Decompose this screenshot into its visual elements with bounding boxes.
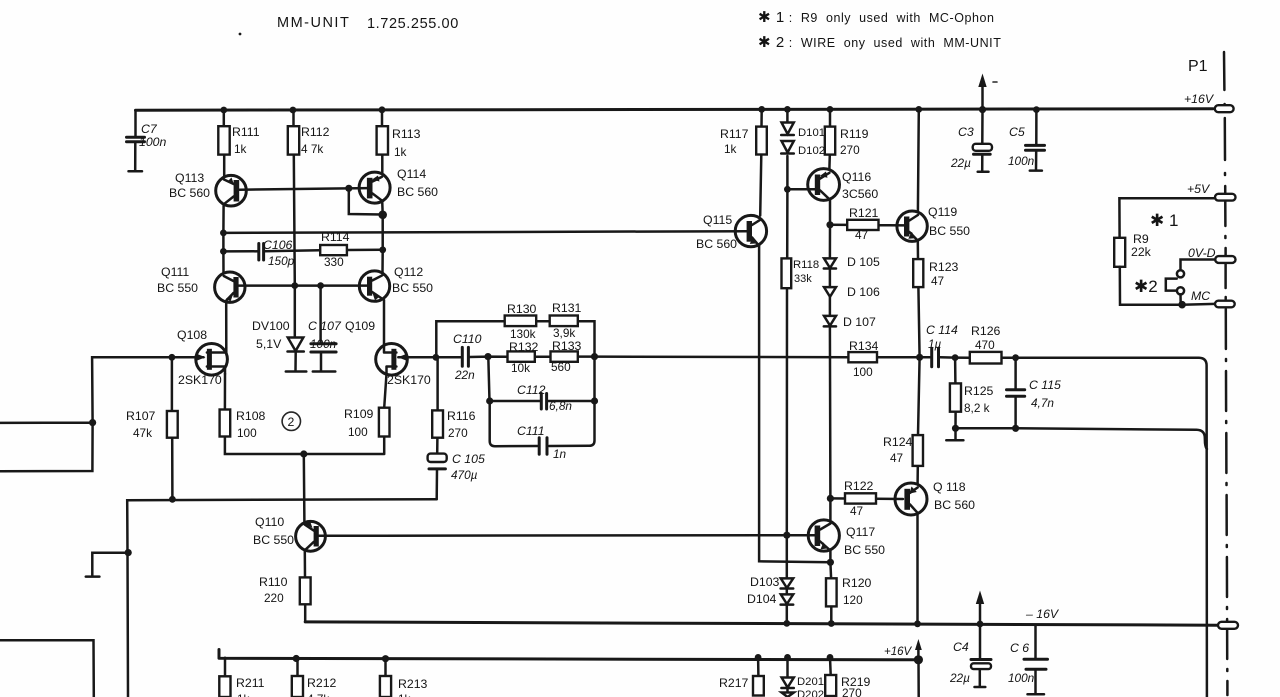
resistor R217 xyxy=(719,657,764,695)
svg-text:1µ: 1µ xyxy=(928,337,942,351)
svg-text:R110: R110 xyxy=(259,575,288,589)
wire C106/R114 row y=251 xyxy=(223,250,382,252)
FET Q109 xyxy=(345,319,431,387)
diode D103 xyxy=(750,575,793,589)
svg-text:R130: R130 xyxy=(507,302,537,316)
svg-text:47: 47 xyxy=(855,228,868,242)
resistor R130 xyxy=(505,302,537,341)
svg-text:BC 550: BC 550 xyxy=(844,543,885,557)
svg-text:100n: 100n xyxy=(139,135,167,149)
node Q117 base/emitter junctions xyxy=(783,532,834,566)
wire C115 column xyxy=(1014,358,1017,429)
wire -16V bottom rail xyxy=(305,622,1218,625)
wire R130/R131 top loop xyxy=(436,321,594,357)
node -16V rail junctions xyxy=(783,620,983,627)
svg-text:4 7k: 4 7k xyxy=(307,692,329,697)
svg-text:R116: R116 xyxy=(447,409,476,423)
wire R125 tap xyxy=(954,358,957,429)
svg-text:220: 220 xyxy=(264,591,284,605)
svg-text:C3: C3 xyxy=(958,125,974,139)
svg-text:✱ 2 : WIRE ony used with: ✱ 2 : WIRE ony used with MM-UNIT xyxy=(758,34,1001,51)
svg-text:C110: C110 xyxy=(453,332,482,346)
switch contact lower xyxy=(1177,287,1184,294)
wire D105/D106/D107 column xyxy=(829,225,832,499)
svg-text:1k: 1k xyxy=(398,692,411,697)
svg-text:BC 550: BC 550 xyxy=(157,281,198,295)
svg-text:Q112: Q112 xyxy=(394,265,423,279)
wire R113/Q114/Q112/Q109 column xyxy=(382,110,384,346)
svg-text:Q111: Q111 xyxy=(161,265,189,279)
svg-text:560: 560 xyxy=(551,360,571,374)
node rail junctions xyxy=(220,106,1039,113)
resistor R219 xyxy=(825,657,870,697)
svg-text:R132: R132 xyxy=(509,340,539,354)
resistor R123 xyxy=(913,259,958,288)
svg-text:R213: R213 xyxy=(398,677,428,691)
wire 0V-D to switch xyxy=(1181,260,1216,271)
svg-text:Q119: Q119 xyxy=(928,205,957,219)
svg-text:R212: R212 xyxy=(307,676,337,690)
svg-text:1k: 1k xyxy=(724,142,737,156)
resistor R107 xyxy=(126,409,178,440)
diode D106 xyxy=(824,285,880,299)
svg-text:Q115: Q115 xyxy=(703,213,732,227)
ground bar left xyxy=(86,575,100,578)
svg-text:R111: R111 xyxy=(232,125,260,139)
wire D101/D102/R118 column xyxy=(786,109,789,535)
svg-text:C 105: C 105 xyxy=(452,452,485,466)
svg-text:Q114: Q114 xyxy=(397,167,426,181)
wire strap bracket *2 xyxy=(1166,279,1177,291)
diode D201 xyxy=(781,657,824,697)
capacitor C111 xyxy=(517,424,567,461)
resistor R213 xyxy=(380,659,428,697)
svg-text:D104: D104 xyxy=(747,592,777,606)
svg-text:100: 100 xyxy=(853,365,873,379)
wire input gate line Q108 xyxy=(0,357,204,471)
svg-text:D 107: D 107 xyxy=(843,315,876,329)
capacitor C4 electrolytic xyxy=(949,624,991,687)
svg-text:22µ: 22µ xyxy=(949,671,970,685)
capacitor C114 xyxy=(926,323,958,367)
node R122 junction xyxy=(827,495,834,502)
svg-text:R123: R123 xyxy=(929,260,959,274)
svg-text:R9: R9 xyxy=(1133,232,1149,246)
svg-text:1k: 1k xyxy=(234,142,247,156)
node input junction xyxy=(89,419,96,426)
svg-text:100n: 100n xyxy=(310,337,337,351)
svg-text:D102: D102 xyxy=(798,145,825,157)
capacitor C110 xyxy=(453,332,482,382)
svg-text:Q116: Q116 xyxy=(842,170,871,184)
capacitor C107 xyxy=(308,286,342,372)
svg-text:R109: R109 xyxy=(344,407,374,421)
svg-text:BC 560: BC 560 xyxy=(397,185,438,199)
node Q116 base junction xyxy=(784,186,791,193)
wire Q115 emitter down and across xyxy=(759,247,830,563)
zener DV100 xyxy=(252,286,306,372)
svg-text:C7: C7 xyxy=(141,122,158,136)
svg-text:8,2 k: 8,2 k xyxy=(964,401,990,415)
wire R107 column xyxy=(171,357,174,499)
transistor Q117 xyxy=(808,520,885,557)
svg-text:10k: 10k xyxy=(511,361,530,375)
svg-text:47: 47 xyxy=(931,274,944,288)
node R107 bottom junction xyxy=(169,496,176,503)
svg-text:2SK170: 2SK170 xyxy=(178,373,222,387)
resistor R134 xyxy=(848,339,878,379)
svg-text:R114: R114 xyxy=(321,230,350,244)
svg-text:C 6: C 6 xyxy=(1010,641,1029,655)
svg-text:+16V: +16V xyxy=(1184,92,1215,106)
svg-text:✱ 1 : R9 only used with: ✱ 1 : R9 only used with MC-Ophon xyxy=(758,9,995,26)
resistor R116 xyxy=(432,409,475,440)
wire Q117 collector/emitter column xyxy=(829,498,832,623)
svg-text:22k: 22k xyxy=(1131,245,1152,259)
svg-text:100: 100 xyxy=(237,426,257,440)
svg-text:470: 470 xyxy=(975,338,995,352)
svg-text:1k: 1k xyxy=(394,145,407,159)
svg-text:2SK170: 2SK170 xyxy=(387,373,431,387)
svg-text:D 106: D 106 xyxy=(847,285,880,299)
wire R9 to MC xyxy=(1120,267,1215,305)
svg-text:R119: R119 xyxy=(840,127,869,141)
node FET source node xyxy=(300,450,307,457)
wire Q110 emitter / R140 column xyxy=(304,551,307,622)
resistor R9 xyxy=(1114,232,1151,267)
transistor Q112 xyxy=(359,265,433,301)
wire channel-2 input box corner xyxy=(0,640,94,697)
svg-text:R113: R113 xyxy=(392,127,421,141)
svg-text:5,1V: 5,1V xyxy=(256,337,282,351)
svg-text:R125: R125 xyxy=(964,384,994,398)
arrow -16V supply entry xyxy=(976,591,984,625)
capacitor C112 xyxy=(517,383,572,413)
resistor R121 xyxy=(847,206,878,242)
svg-text:330: 330 xyxy=(324,255,344,269)
wire signal line y=357 xyxy=(398,357,1207,697)
diode D104 xyxy=(747,592,793,606)
resistor R120 xyxy=(826,576,872,607)
svg-text:C5: C5 xyxy=(1009,125,1025,139)
capacitor C3 electrolytic xyxy=(950,110,992,172)
wire ground return line y=499.5 xyxy=(92,499,436,697)
wire Q113/Q114 emitter bus y=233 to Q115 base xyxy=(223,231,746,233)
wire D103/D104 column xyxy=(786,535,789,623)
svg-text:R211: R211 xyxy=(236,676,265,690)
pin +16V xyxy=(1184,92,1234,112)
svg-text:C 107: C 107 xyxy=(308,319,342,333)
svg-text:22n: 22n xyxy=(454,368,475,382)
wire Q119 column xyxy=(918,109,920,357)
svg-text:R121: R121 xyxy=(849,206,879,220)
node channel-2 rail junctions xyxy=(293,654,923,664)
svg-text:+5V: +5V xyxy=(1187,182,1211,196)
svg-text:D201: D201 xyxy=(797,676,824,688)
svg-text:100n: 100n xyxy=(1008,671,1035,685)
svg-text:Q109: Q109 xyxy=(345,319,375,333)
wire +16V top rail xyxy=(136,109,1214,110)
svg-text:+16V: +16V xyxy=(884,646,913,658)
svg-text:150p: 150p xyxy=(268,254,295,268)
svg-text:3C560: 3C560 xyxy=(842,187,878,201)
FET Q108 xyxy=(177,328,227,387)
transistor Q119 xyxy=(897,205,970,241)
svg-text:6,8n: 6,8n xyxy=(549,399,572,413)
resistor R109 xyxy=(344,407,390,439)
node emitter bus junctions xyxy=(220,185,387,255)
svg-text:270: 270 xyxy=(842,686,862,697)
diode D101 xyxy=(781,123,825,140)
diode D107 xyxy=(824,315,876,329)
resistor R108 xyxy=(220,409,266,440)
capacitor C115 xyxy=(1007,378,1062,410)
arrow channel-2 +16V entry xyxy=(884,639,922,660)
svg-text:BC 560: BC 560 xyxy=(934,498,975,512)
wire R112 column xyxy=(294,110,295,286)
svg-text:47k: 47k xyxy=(133,426,152,440)
node ground tap junction xyxy=(125,549,132,556)
transistor Q114 xyxy=(359,167,438,203)
svg-text:D202: D202 xyxy=(797,689,824,697)
svg-text:47: 47 xyxy=(890,451,903,465)
capacitor C106 xyxy=(259,238,295,268)
svg-text:BC 560: BC 560 xyxy=(696,237,737,251)
svg-text:4,7n: 4,7n xyxy=(1031,396,1054,410)
svg-text:22µ: 22µ xyxy=(950,156,971,170)
wire R119/Q116 column xyxy=(828,109,831,224)
wire R122 row xyxy=(830,497,903,500)
svg-text:470µ: 470µ xyxy=(451,468,478,482)
arrow +16V supply entry xyxy=(978,74,997,110)
transistor Q116 xyxy=(787,169,878,201)
svg-text:47: 47 xyxy=(850,504,863,518)
svg-text:0V-D: 0V-D xyxy=(1188,246,1216,260)
svg-text:BC 550: BC 550 xyxy=(253,533,294,547)
node lower row junctions xyxy=(952,425,1019,432)
wire C112 loop xyxy=(488,357,594,401)
resistor R126 xyxy=(970,324,1002,364)
svg-text:C112: C112 xyxy=(517,383,546,397)
wire Q113-Q114 base link xyxy=(240,188,368,190)
diode D102 xyxy=(781,141,825,157)
svg-text:33k: 33k xyxy=(794,273,812,285)
wire channel-2 column continuing down xyxy=(917,660,920,697)
resistor R111 xyxy=(218,125,259,156)
wire R111/Q113/Q111/Q108/R108 column xyxy=(223,110,386,454)
resistor R122 xyxy=(844,479,876,518)
svg-text:Q108: Q108 xyxy=(177,328,207,342)
resistor R110 xyxy=(259,575,311,605)
resistor R119 xyxy=(825,127,869,157)
svg-text:Q113: Q113 xyxy=(175,171,204,185)
svg-text:Q110: Q110 xyxy=(255,515,284,529)
wire lower contact to MC xyxy=(1179,294,1182,304)
capacitor C105 electrolytic xyxy=(428,452,485,482)
pin 0V-D xyxy=(1188,246,1236,263)
svg-text:R122: R122 xyxy=(844,479,874,493)
resistor R125 xyxy=(950,383,994,415)
svg-text:100n: 100n xyxy=(1008,154,1035,168)
resistor R132 xyxy=(508,340,539,375)
pin -16V xyxy=(1025,607,1238,629)
svg-text:DV100: DV100 xyxy=(252,319,290,333)
svg-text:R131: R131 xyxy=(552,301,582,315)
wire +5V to R9 xyxy=(1119,198,1215,238)
wire Q111-Q112 base link y=285.6 xyxy=(239,284,368,287)
svg-text:D103: D103 xyxy=(750,575,780,589)
diode D105 xyxy=(824,255,880,269)
svg-text:C106: C106 xyxy=(263,238,293,252)
svg-text:✱2: ✱2 xyxy=(1134,277,1158,296)
capacitor C6 xyxy=(1008,625,1048,694)
node Q108 gate junction xyxy=(169,354,176,361)
svg-text:R124: R124 xyxy=(883,435,913,449)
svg-text:270: 270 xyxy=(448,426,468,440)
resistor R133 xyxy=(551,339,582,374)
capacitor C5 xyxy=(1008,110,1045,171)
transistor Q113 xyxy=(169,171,246,206)
svg-text:D101: D101 xyxy=(798,127,825,139)
svg-text:R118: R118 xyxy=(793,259,819,271)
node label circled 2 xyxy=(282,412,300,430)
svg-text:R133: R133 xyxy=(552,339,582,353)
switch contact upper xyxy=(1177,270,1184,277)
svg-text:BC 560: BC 560 xyxy=(169,186,210,200)
wire Q114 base-emitter strap xyxy=(349,188,383,214)
svg-text:BC 550: BC 550 xyxy=(392,281,433,295)
svg-text:1.725.255.00: 1.725.255.00 xyxy=(367,16,459,32)
svg-text:R107: R107 xyxy=(126,409,156,423)
resistor R211 xyxy=(219,658,264,697)
svg-text:R117: R117 xyxy=(720,127,749,141)
resistor R212 xyxy=(292,658,337,697)
svg-text:Q 118: Q 118 xyxy=(933,480,966,494)
svg-text:R108: R108 xyxy=(236,409,266,423)
transistor Q111 xyxy=(157,265,245,302)
svg-text:MC: MC xyxy=(1191,289,1210,303)
svg-text:Q117: Q117 xyxy=(846,525,875,539)
svg-text:1n: 1n xyxy=(553,447,567,461)
resistor R117 xyxy=(720,127,767,156)
svg-text:D 105: D 105 xyxy=(847,255,880,269)
svg-text:130k: 130k xyxy=(510,327,536,341)
node MC junction xyxy=(1178,301,1186,309)
resistor R118 xyxy=(782,258,820,288)
svg-text:R112: R112 xyxy=(301,125,330,139)
svg-text:R134: R134 xyxy=(849,339,879,353)
svg-text:R217: R217 xyxy=(719,676,749,690)
svg-text:R120: R120 xyxy=(842,576,872,590)
svg-text:✱ 1: ✱ 1 xyxy=(1150,211,1178,230)
transistor Q118 xyxy=(895,480,975,515)
wire Q110 base line to Q117 xyxy=(319,534,815,537)
svg-text:2: 2 xyxy=(288,415,295,429)
transistor Q115 xyxy=(696,213,767,251)
svg-text:100: 100 xyxy=(348,425,368,439)
pin +5V xyxy=(1187,182,1236,201)
wire Q110 collector column xyxy=(303,454,306,522)
wire channel-2 +16V rail xyxy=(219,650,919,660)
svg-text:– 16V: – 16V xyxy=(1025,607,1060,621)
resistor R112 xyxy=(288,125,330,156)
svg-text:R126: R126 xyxy=(971,324,1001,338)
svg-text:270: 270 xyxy=(840,143,860,157)
pin MC xyxy=(1191,289,1235,307)
resistor R113 xyxy=(377,126,421,159)
svg-text:C 115: C 115 xyxy=(1029,378,1061,392)
svg-text:P1: P1 xyxy=(1188,58,1208,75)
svg-text:4 7k: 4 7k xyxy=(301,142,323,156)
wire R117/Q115 column xyxy=(760,109,762,215)
resistor R114 xyxy=(320,230,349,269)
svg-text:C4: C4 xyxy=(953,640,969,654)
svg-text:BC 550: BC 550 xyxy=(929,224,970,238)
wire R124/Q118 column xyxy=(918,357,920,624)
node signal junctions xyxy=(433,353,1019,361)
title MM-UNIT part number xyxy=(239,15,459,35)
resistor R124 xyxy=(883,435,923,466)
node R121 junction xyxy=(826,221,833,228)
dash-dot connector boundary line xyxy=(1224,52,1227,695)
svg-text:C111: C111 xyxy=(517,424,545,438)
node C112 loop junctions xyxy=(486,397,598,404)
wire R121 row xyxy=(830,224,905,227)
svg-text:1k: 1k xyxy=(237,692,250,697)
transistor Q110 xyxy=(253,515,325,551)
wire R116/C105 column xyxy=(435,357,438,499)
node base row junctions xyxy=(291,282,324,289)
svg-text:3,9k: 3,9k xyxy=(553,326,575,340)
ground R125 xyxy=(946,428,963,440)
svg-text:120: 120 xyxy=(843,593,863,607)
wire lower feedback row y=428.5 xyxy=(956,428,1207,449)
wire C111 loop xyxy=(490,401,595,446)
capacitor C7 xyxy=(127,110,167,171)
svg-text:MM-UNIT: MM-UNIT xyxy=(277,15,350,31)
svg-text:C 114: C 114 xyxy=(926,323,958,337)
resistor R131 xyxy=(550,301,582,340)
